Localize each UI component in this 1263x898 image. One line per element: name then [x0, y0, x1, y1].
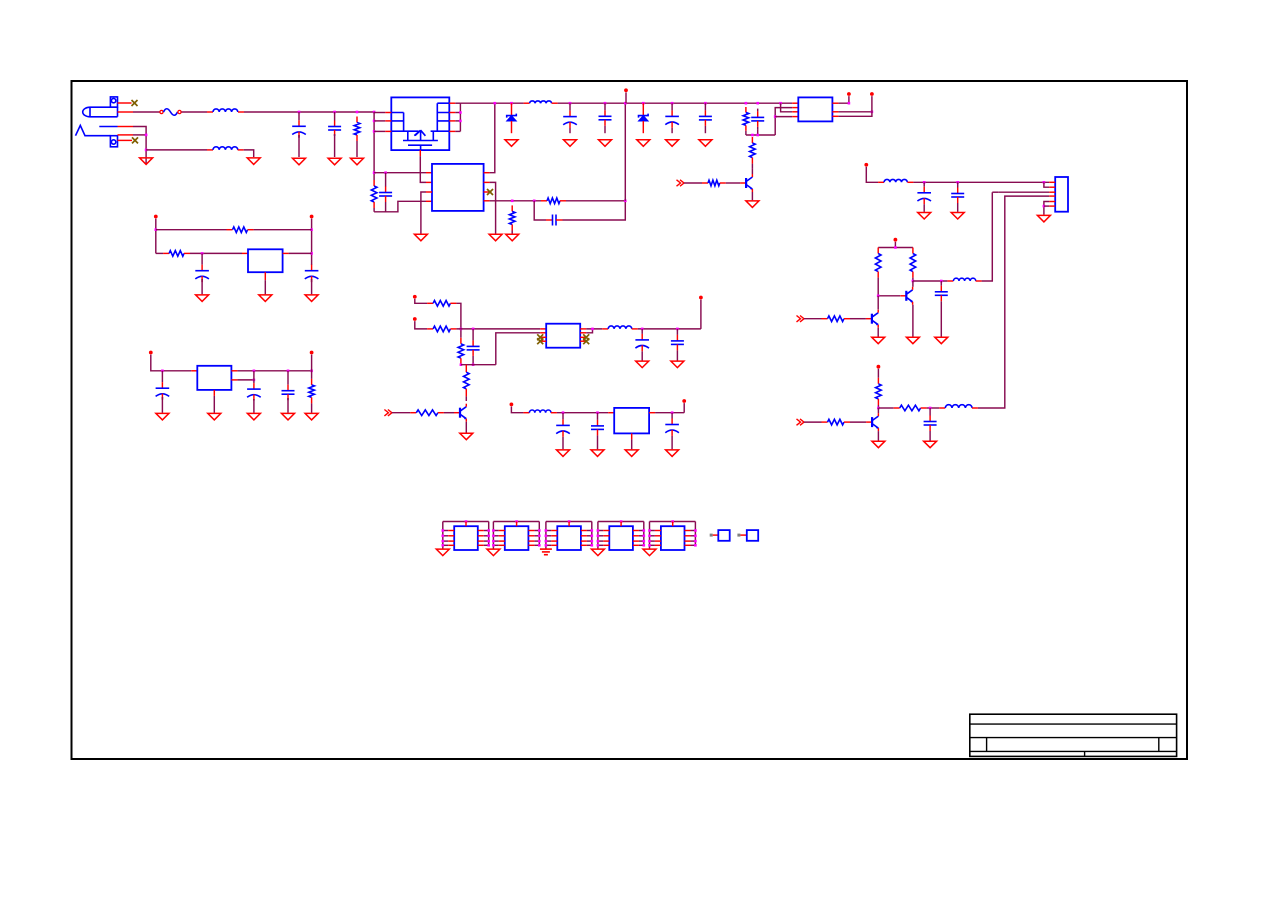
wire VCC low stub	[877, 369, 879, 378]
pin U11 lpin 4	[655, 544, 661, 546]
junction U9 rj 3	[591, 540, 594, 543]
junction bot / C18	[472, 363, 475, 366]
junction U8 lj 2	[492, 535, 495, 538]
wire U8 lpin 3	[493, 540, 498, 542]
IC U6 (regulator)	[614, 408, 649, 434]
wire U10 lpin 3	[598, 540, 603, 542]
test point TP2	[747, 530, 758, 541]
ground GND U4	[208, 413, 221, 420]
wire tie	[746, 134, 775, 136]
pin J3 pin 1	[1049, 181, 1055, 183]
resistor R2	[371, 180, 377, 208]
wire U7 rpin 1	[484, 530, 489, 532]
pin Q1 left pin 1	[385, 112, 391, 114]
pin U4 pin 1	[191, 370, 197, 372]
junction B1 right / mid	[310, 252, 313, 255]
resistor R10	[876, 378, 882, 405]
wire out to C12	[913, 280, 948, 282]
wire R9 to Q4 base	[850, 318, 866, 320]
junction U5 out	[591, 328, 594, 331]
capacitor C23 (polarized)	[665, 413, 679, 437]
pin U7 rpin 1	[478, 530, 484, 532]
pin U1 pin 2	[426, 181, 432, 183]
wire U10 top loop	[598, 521, 644, 523]
junction Q1 out tie a	[459, 111, 462, 114]
wire Q1 gate to U1	[420, 156, 426, 182]
ground GND R1	[351, 158, 364, 165]
wire output rail	[558, 102, 793, 104]
wire U9 rpin 3	[587, 540, 592, 542]
page border	[72, 81, 1188, 759]
wire port2 to R12	[804, 421, 822, 423]
junction U8 lj 4	[492, 544, 495, 547]
ground GND C15	[305, 295, 318, 302]
pin U1 pin 8	[484, 200, 490, 202]
pin U8 rpin 4	[528, 544, 534, 546]
wire C1 to gnd	[298, 135, 300, 157]
junction rail / R5	[745, 102, 748, 105]
wire R12 to Q5 base	[850, 421, 866, 423]
wire C2 to gnd	[334, 134, 336, 157]
wire J2 pin1 to node	[133, 127, 146, 165]
wire R to Q2 base	[726, 182, 740, 184]
transistor Q4	[866, 310, 878, 328]
power symbol VB	[413, 317, 417, 321]
wire U9 rpin 1	[587, 530, 592, 532]
wire port1 to R9	[804, 318, 822, 320]
capacitor C22	[591, 413, 604, 436]
pin U4 pin 3	[231, 370, 237, 372]
ground GND C22	[591, 450, 604, 457]
ground GND C16	[156, 413, 169, 420]
junction U11 rj 2	[694, 535, 697, 538]
junction rail / C9	[756, 102, 759, 105]
wire C3 to tie	[385, 202, 387, 212]
wire U2 pin4 net	[775, 116, 792, 118]
wire R5 to tie	[745, 131, 747, 135]
pin U5 out 1	[580, 328, 586, 330]
pin Q1 right pin 1	[449, 102, 455, 104]
wire U8 lpin 4	[493, 544, 498, 546]
wire U9 lpin 1	[546, 530, 551, 532]
capacitor C8	[699, 103, 712, 133]
wire feedback net	[490, 200, 541, 202]
pin U4 pin 2	[213, 390, 215, 396]
wire U6 gnd wire	[631, 439, 633, 449]
wire R16 to node	[456, 303, 461, 338]
resistor R14	[163, 251, 190, 257]
wire R17 to bot	[460, 363, 462, 366]
junction U7 rj 4	[487, 544, 490, 547]
junction B1 right / top	[310, 228, 313, 231]
wire Q2 emitter	[751, 192, 753, 200]
junction input rail / R1	[356, 111, 359, 114]
wire U10 rpin 4	[639, 544, 644, 546]
resistor R?	[702, 180, 726, 186]
wire U10 lpin 4	[598, 544, 603, 546]
wire U9 left vert	[545, 522, 547, 549]
wire port3 to R20	[392, 412, 410, 414]
wire B2 out rail	[237, 370, 311, 372]
wire Q1 right pin 4	[455, 130, 460, 132]
ground GND Q3	[906, 337, 919, 344]
junction U7 rj 2	[487, 535, 490, 538]
pin U4 pin 4	[231, 379, 237, 381]
power symbol VIN B1	[154, 215, 158, 219]
pin J3 pin 4	[1049, 195, 1055, 197]
pin U8 top pin	[516, 522, 518, 527]
junction rail / U2 jog	[779, 102, 782, 105]
ground GND Q2	[746, 201, 759, 208]
zener diode D1	[507, 103, 517, 133]
wire pin3 riser	[982, 192, 993, 281]
wire bottom tie C1	[461, 364, 496, 366]
wire U8 left vert	[492, 522, 494, 549]
junction J2 node a	[145, 134, 148, 137]
wire node1 rail	[456, 328, 540, 330]
junction out node	[912, 280, 915, 283]
pin U9 rpin 1	[581, 530, 587, 532]
pin J3 pin 2	[1049, 186, 1055, 188]
junction low / C13	[929, 407, 932, 410]
IC U11	[661, 526, 685, 550]
junction riser / U1 pin1	[373, 171, 376, 174]
junction node1	[460, 328, 463, 331]
junction U9 rj 4	[591, 544, 594, 547]
wire Q1 right pin 1	[455, 102, 460, 104]
wire J3 pin4 net	[978, 196, 1049, 408]
pin U11 top pin	[672, 522, 674, 527]
transistor Q1 (power MOSFET module)	[391, 97, 449, 150]
junction sw / D1	[510, 102, 513, 105]
capacitor C10 (polarized)	[917, 182, 931, 206]
wire R10 to node	[877, 405, 879, 408]
wire U8 lpin 2	[493, 535, 498, 537]
wire B2 in drop	[151, 355, 192, 371]
ground GND C17	[282, 413, 295, 420]
junction Q1 out tie b	[459, 120, 462, 123]
wire C2 out	[655, 412, 684, 414]
wire U1 pin1 net	[374, 172, 426, 174]
ground GND C5	[564, 140, 577, 147]
junction out / C20	[676, 328, 679, 331]
wire Q1 output tie	[459, 103, 461, 131]
no-connect U5 nc3	[583, 334, 589, 340]
capacitor C7 (polarized)	[665, 103, 679, 133]
pin U1 pin 4	[426, 200, 432, 202]
ground GND R15	[305, 413, 318, 420]
wire U11 lpin 4	[650, 544, 655, 546]
wire B1 right vert	[311, 219, 313, 265]
wire U11 left vert	[649, 522, 651, 549]
wire U11 rpin 4	[691, 544, 696, 546]
ground GND D2	[637, 140, 650, 147]
pin U5 out 2	[580, 332, 586, 334]
ground GND C7	[666, 140, 679, 147]
junction pin5/6	[1043, 205, 1046, 208]
zener diode D2	[639, 103, 649, 133]
pin U5 pin 2	[540, 332, 546, 334]
ground GND C1	[293, 158, 306, 165]
wire U11 right vert	[694, 522, 696, 546]
wire U9 lpin 3	[546, 540, 551, 542]
resistor R13	[227, 227, 254, 233]
junction B2 / R15	[310, 370, 313, 373]
junction U10 top	[620, 520, 623, 523]
junction U9 rj 2	[591, 535, 594, 538]
junction C2 / C23	[671, 411, 674, 414]
ground GND Q5	[872, 441, 885, 448]
wire B1 left vert	[155, 219, 157, 254]
pin U2 pin 7	[832, 111, 838, 113]
junction U7 rj 3	[487, 540, 490, 543]
pin U7 rpin 4	[478, 544, 484, 546]
wire Q4 emitter net	[877, 328, 879, 337]
pin U8 rpin 2	[528, 535, 534, 537]
pin U11 rpin 3	[685, 540, 691, 542]
junction tie / R6	[751, 134, 754, 137]
pin U1 pin 6	[484, 181, 490, 183]
wire U8 top loop	[493, 521, 539, 523]
capacitor C12	[935, 281, 948, 304]
junction U9 lj 2	[545, 535, 548, 538]
test point TP1 pad	[710, 534, 713, 537]
pin TP1 pin	[713, 534, 719, 536]
capacitor C9	[751, 109, 764, 130]
ground GND C2	[328, 158, 341, 165]
IC U2	[798, 97, 832, 121]
junction B2 / C17	[287, 370, 290, 373]
ground GND C20	[671, 361, 684, 368]
pin U5 pin nc4	[580, 340, 586, 342]
wire feed drop	[866, 167, 878, 182]
junction rail / fb riser	[624, 102, 627, 105]
pin U1 pin 1	[426, 172, 432, 174]
ground GND C13	[924, 441, 937, 448]
pin U11 lpin 2	[655, 535, 661, 537]
junction sw / U1 pin5	[494, 102, 497, 105]
wire U7 right vert	[488, 522, 490, 546]
pin U8 lpin 1	[499, 530, 505, 532]
junction U7 top	[465, 520, 468, 523]
pin U11 lpin 3	[655, 540, 661, 542]
junction base node	[877, 295, 880, 298]
wire base rail	[878, 295, 900, 297]
wire Q1 right pin 2	[455, 112, 460, 114]
no-connect U5 nc2	[537, 338, 543, 344]
pin U6 pin 1	[608, 412, 614, 414]
wire U10 rpin 2	[639, 535, 644, 537]
power symbol VOUT feed	[864, 163, 868, 167]
wire low out a	[878, 407, 893, 409]
wire B1 mid a	[156, 252, 163, 254]
wire riser to Q1 pins	[373, 112, 375, 180]
capacitor C20	[671, 329, 684, 354]
wire C11 to gnd	[957, 206, 959, 212]
pin U3 pin 1	[242, 252, 248, 254]
pin U5 pin 1	[540, 328, 546, 330]
junction B2 / C16	[161, 370, 164, 373]
junction feed / C11	[956, 181, 959, 184]
wire B1 out	[289, 252, 312, 254]
wire C13 to gnd	[929, 431, 931, 441]
resistor R16	[427, 301, 456, 307]
wire U10 rpin 1	[639, 530, 644, 532]
pin U8 lpin 3	[499, 540, 505, 542]
wire R2 bottom	[373, 208, 375, 212]
resistor R7	[875, 248, 881, 278]
pin U7 lpin 4	[448, 544, 454, 546]
pin U9 rpin 4	[581, 544, 587, 546]
ground GND U9 (earth)	[540, 549, 552, 555]
wire U10 left vert	[597, 522, 599, 549]
junction C2 / C21	[562, 411, 565, 414]
wire R1 to gnd	[356, 141, 358, 157]
pin U3 pin 2	[264, 272, 266, 280]
pin U8 rpin 1	[528, 530, 534, 532]
power symbol VOUT B1	[310, 215, 314, 219]
wire R6 to Q2	[751, 164, 753, 169]
junction U9 top	[568, 520, 571, 523]
junction pin8 corner	[848, 102, 851, 105]
resistor R6	[750, 137, 756, 164]
junction U8 rj 3	[538, 540, 541, 543]
no-connect U5 nc4	[583, 338, 589, 344]
inductor L6	[939, 405, 978, 408]
wire U9 lpin 4	[546, 544, 551, 546]
ground GND C?a	[247, 413, 260, 420]
wire U10 rpin 3	[639, 540, 644, 542]
pin U2 pin 6	[832, 115, 838, 117]
resistor R1	[354, 117, 360, 142]
ground GND C12	[935, 337, 948, 344]
pin U5 pin nc2	[540, 340, 546, 342]
resistor R11	[894, 405, 927, 411]
wire U7 lpin 2	[443, 535, 448, 537]
ground GND D1	[505, 140, 518, 147]
junction B1 left / top	[155, 228, 158, 231]
junction U9 rj 1	[591, 529, 594, 532]
pin U10 rpin 1	[633, 530, 639, 532]
junction U7 lj 4	[442, 544, 445, 547]
wire U9 top loop	[546, 521, 592, 523]
pin U7 lpin 3	[448, 540, 454, 542]
wire Q1 left pin 1	[374, 112, 385, 114]
junction riser / fb	[624, 200, 627, 203]
wire U7 top loop	[443, 521, 489, 523]
junction input rail / C2	[333, 111, 336, 114]
wire U8 rpin 2	[534, 535, 539, 537]
pin U5 pin nc1	[540, 336, 546, 338]
power symbol VD	[510, 403, 514, 407]
capacitor C19 (polarized)	[635, 329, 649, 354]
ground GND U11	[643, 549, 656, 556]
pin U11 lpin 1	[655, 530, 661, 532]
pin J2 pin 2	[118, 134, 134, 136]
pin U10 lpin 4	[603, 544, 609, 546]
ground GND U8	[487, 549, 500, 556]
pin J3 pin 3	[1049, 191, 1055, 193]
wire U11 lpin 1	[650, 530, 655, 532]
wire R19 to Q6	[465, 396, 467, 401]
wire U8 lpin 1	[493, 530, 498, 532]
pin U7 rpin 3	[478, 540, 484, 542]
wire U7 rpin 4	[484, 544, 489, 546]
pin U1 pin 5	[484, 172, 490, 174]
resistor R8	[910, 248, 916, 278]
transistor Q2	[740, 174, 752, 192]
wire R7 to base node	[877, 278, 879, 296]
IC J3 (header)	[1055, 177, 1068, 212]
wire U1 pin5 to rail	[490, 103, 495, 173]
pin U1 pin 7	[484, 191, 490, 193]
power symbol VA	[413, 295, 417, 299]
pin U8 lpin 2	[499, 535, 505, 537]
resistor R9	[822, 316, 851, 322]
pin U2 pin 3	[792, 111, 798, 113]
pin U7 lpin 1	[448, 530, 454, 532]
wire B2 right vert	[311, 355, 313, 379]
capacitor C21 (polarized)	[556, 413, 570, 437]
wire U11 rpin 3	[691, 540, 696, 542]
wire U4 gnd wire	[213, 396, 215, 413]
wire C12 to gnd	[940, 304, 942, 337]
ground GND return	[247, 158, 260, 165]
wire C10 to gnd	[923, 206, 925, 212]
wire U7 lpin 1	[443, 530, 448, 532]
junction U8 rj 1	[538, 529, 541, 532]
wire U1 pin6 to gnd	[490, 182, 496, 233]
capacitor C14 (polarized)	[195, 253, 209, 282]
wire J3 pin3 net	[998, 191, 1049, 193]
pin U9 top pin	[568, 522, 570, 527]
pin U11 rpin 4	[685, 544, 691, 546]
wire out riser	[700, 300, 702, 329]
junction U11 lj 1	[648, 529, 651, 532]
wire C20 to gnd	[676, 354, 678, 361]
pin U10 lpin 3	[603, 540, 609, 542]
pin U9 lpin 4	[551, 544, 557, 546]
wire Q1 right pin 3	[455, 120, 460, 122]
wire Q3 emitter net	[912, 305, 914, 337]
inductor L2	[207, 147, 244, 150]
ground GND U6	[625, 450, 638, 457]
junction U10 rj 3	[643, 540, 646, 543]
wire U9 rpin 2	[587, 535, 592, 537]
wire R20 to Q6 base	[444, 412, 454, 414]
pin J2 pin 1	[118, 126, 134, 128]
wire U11 lpin 2	[650, 535, 655, 537]
junction C2 / C22	[596, 411, 599, 414]
wire Q1 left pin 3	[374, 130, 385, 132]
pin U3 pin 3	[283, 252, 289, 254]
power symbol VOUT B2	[310, 351, 314, 355]
wire U8 rpin 3	[534, 540, 539, 542]
resistor R19	[464, 365, 470, 397]
junction U11 rj 3	[694, 540, 697, 543]
pin J3 pin 5	[1049, 201, 1055, 203]
no-connect U1 pin 7	[487, 189, 493, 195]
IC U3 (regulator)	[248, 249, 283, 272]
pin U9 lpin 2	[551, 535, 557, 537]
wire mid top rail	[878, 247, 913, 249]
capacitor C16 (polarized)	[156, 371, 170, 400]
power symbol VC	[699, 296, 703, 300]
wire low out b	[927, 407, 940, 409]
port audio in 2	[797, 419, 805, 425]
wire B2 tie	[253, 371, 255, 383]
wire U9 rpin 4	[587, 544, 592, 546]
